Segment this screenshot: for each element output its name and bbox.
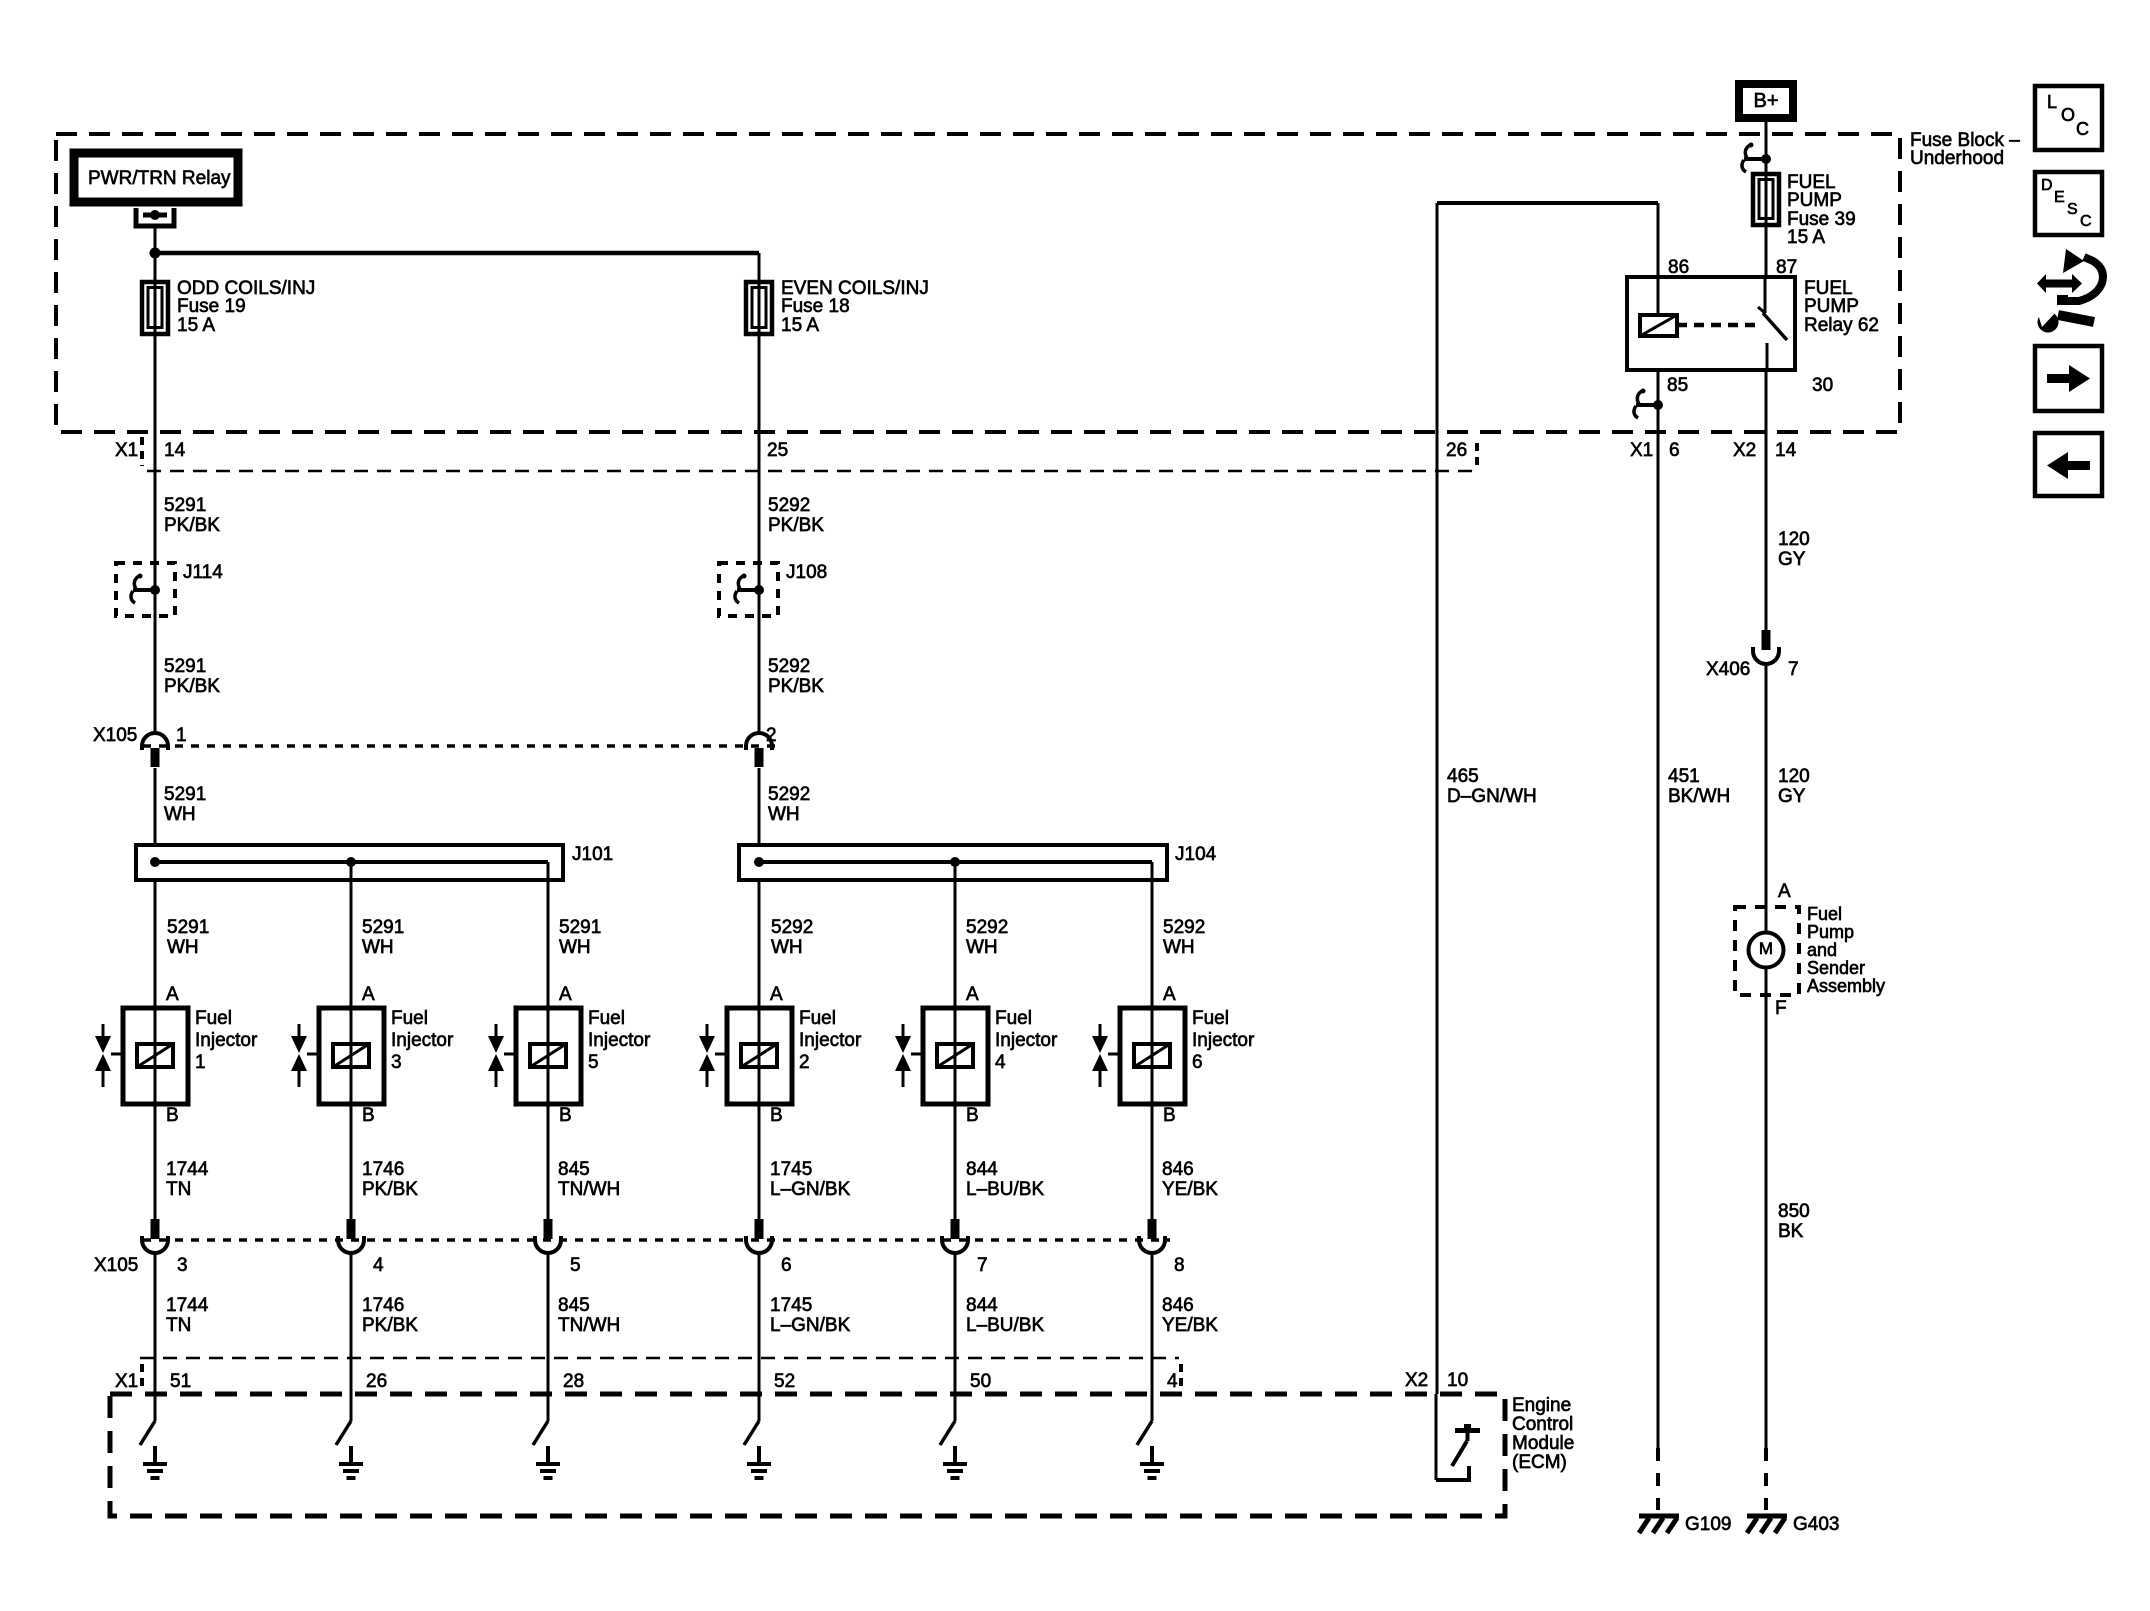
- svg-text:BK/WH: BK/WH: [1668, 786, 1730, 807]
- svg-text:Relay 62: Relay 62: [1804, 315, 1879, 336]
- svg-text:Fuel: Fuel: [1807, 904, 1842, 924]
- svg-text:1: 1: [176, 725, 187, 746]
- svg-text:Module: Module: [1512, 1433, 1574, 1454]
- svg-text:26: 26: [1446, 440, 1467, 461]
- svg-text:4: 4: [1167, 1371, 1178, 1392]
- svg-text:1744: 1744: [166, 1159, 209, 1180]
- svg-text:L–BU/BK: L–BU/BK: [966, 1179, 1044, 1200]
- svg-text:D–GN/WH: D–GN/WH: [1447, 786, 1537, 807]
- svg-text:M: M: [1759, 939, 1773, 958]
- svg-text:120: 120: [1778, 529, 1810, 550]
- svg-text:X2: X2: [1405, 1370, 1428, 1391]
- svg-text:Sender: Sender: [1807, 958, 1865, 978]
- svg-text:X1: X1: [115, 1371, 138, 1392]
- svg-text:L: L: [2047, 92, 2057, 112]
- svg-text:Injector: Injector: [195, 1030, 258, 1051]
- svg-text:850: 850: [1778, 1201, 1810, 1222]
- svg-text:J104: J104: [1175, 844, 1217, 865]
- svg-text:50: 50: [970, 1371, 991, 1392]
- svg-text:PK/BK: PK/BK: [164, 515, 220, 536]
- svg-text:E: E: [2054, 189, 2065, 206]
- svg-text:WH: WH: [1163, 937, 1195, 958]
- svg-text:845: 845: [558, 1159, 590, 1180]
- svg-text:Pump: Pump: [1807, 922, 1854, 942]
- svg-text:A: A: [1163, 984, 1176, 1005]
- svg-text:4: 4: [373, 1255, 384, 1276]
- svg-text:WH: WH: [771, 937, 803, 958]
- svg-text:A: A: [966, 984, 979, 1005]
- svg-text:TN: TN: [166, 1179, 191, 1200]
- svg-text:GY: GY: [1778, 786, 1806, 807]
- svg-text:Injector: Injector: [588, 1030, 651, 1051]
- svg-text:PK/BK: PK/BK: [362, 1315, 418, 1336]
- svg-text:51: 51: [170, 1371, 191, 1392]
- svg-text:L–GN/BK: L–GN/BK: [770, 1315, 851, 1336]
- svg-text:D: D: [2041, 177, 2053, 194]
- svg-text:Injector: Injector: [799, 1030, 862, 1051]
- svg-text:845: 845: [558, 1295, 590, 1316]
- svg-text:6: 6: [1669, 440, 1680, 461]
- svg-text:PWR/TRN Relay: PWR/TRN Relay: [88, 168, 231, 189]
- svg-text:Fuse 19: Fuse 19: [177, 296, 246, 317]
- svg-text:846: 846: [1162, 1295, 1194, 1316]
- svg-text:28: 28: [563, 1371, 584, 1392]
- svg-text:BK: BK: [1778, 1221, 1804, 1242]
- svg-text:G403: G403: [1793, 1514, 1839, 1535]
- svg-text:3: 3: [177, 1255, 188, 1276]
- svg-text:X1: X1: [1630, 440, 1653, 461]
- svg-text:451: 451: [1668, 766, 1700, 787]
- svg-text:and: and: [1807, 940, 1837, 960]
- svg-text:A: A: [362, 984, 375, 1005]
- svg-text:B: B: [1163, 1105, 1176, 1126]
- svg-text:PK/BK: PK/BK: [164, 676, 220, 697]
- svg-text:14: 14: [1775, 440, 1797, 461]
- svg-text:X105: X105: [93, 725, 137, 746]
- svg-text:A: A: [1778, 881, 1791, 902]
- svg-text:120: 120: [1778, 766, 1810, 787]
- svg-text:5291: 5291: [164, 495, 206, 516]
- svg-text:B: B: [559, 1105, 572, 1126]
- svg-text:Fuel: Fuel: [799, 1008, 836, 1029]
- svg-text:85: 85: [1667, 375, 1688, 396]
- svg-text:5292: 5292: [966, 917, 1008, 938]
- svg-text:5292: 5292: [768, 656, 810, 677]
- svg-text:X1: X1: [115, 440, 138, 461]
- svg-text:4: 4: [995, 1052, 1006, 1073]
- svg-text:5292: 5292: [768, 784, 810, 805]
- svg-text:5291: 5291: [167, 917, 209, 938]
- svg-text:1746: 1746: [362, 1159, 404, 1180]
- svg-text:A: A: [166, 984, 179, 1005]
- svg-text:15 A: 15 A: [781, 315, 819, 336]
- svg-text:5291: 5291: [164, 784, 206, 805]
- svg-text:1: 1: [195, 1052, 206, 1073]
- svg-text:5292: 5292: [768, 495, 810, 516]
- svg-text:WH: WH: [362, 937, 394, 958]
- svg-text:86: 86: [1668, 257, 1689, 278]
- svg-text:YE/BK: YE/BK: [1162, 1179, 1218, 1200]
- svg-text:Assembly: Assembly: [1807, 976, 1885, 996]
- svg-text:X406: X406: [1706, 659, 1750, 680]
- svg-text:GY: GY: [1778, 549, 1806, 570]
- svg-text:Control: Control: [1512, 1414, 1573, 1435]
- svg-text:PK/BK: PK/BK: [768, 676, 824, 697]
- svg-text:87: 87: [1776, 257, 1797, 278]
- svg-text:6: 6: [1192, 1052, 1203, 1073]
- svg-text:S: S: [2067, 201, 2078, 218]
- svg-text:8: 8: [1174, 1255, 1185, 1276]
- svg-text:5291: 5291: [559, 917, 601, 938]
- svg-text:26: 26: [366, 1371, 387, 1392]
- svg-text:A: A: [559, 984, 572, 1005]
- svg-text:5291: 5291: [164, 656, 206, 677]
- svg-text:J114: J114: [183, 562, 223, 583]
- svg-text:465: 465: [1447, 766, 1479, 787]
- svg-text:Fuel: Fuel: [1192, 1008, 1229, 1029]
- svg-text:Injector: Injector: [1192, 1030, 1255, 1051]
- svg-text:846: 846: [1162, 1159, 1194, 1180]
- svg-text:25: 25: [767, 440, 788, 461]
- svg-text:Underhood: Underhood: [1910, 148, 2004, 169]
- svg-text:5292: 5292: [771, 917, 813, 938]
- svg-text:J101: J101: [572, 844, 613, 865]
- svg-text:7: 7: [977, 1255, 988, 1276]
- svg-text:Fuse 18: Fuse 18: [781, 296, 850, 317]
- svg-text:14: 14: [164, 440, 186, 461]
- svg-text:15 A: 15 A: [177, 315, 215, 336]
- svg-text:5: 5: [588, 1052, 599, 1073]
- svg-text:844: 844: [966, 1295, 998, 1316]
- svg-text:L–BU/BK: L–BU/BK: [966, 1315, 1044, 1336]
- svg-text:2: 2: [799, 1052, 810, 1073]
- svg-text:A: A: [770, 984, 783, 1005]
- svg-text:Fuel: Fuel: [391, 1008, 428, 1029]
- svg-text:X105: X105: [94, 1255, 138, 1276]
- svg-text:30: 30: [1812, 375, 1833, 396]
- svg-text:TN/WH: TN/WH: [558, 1179, 620, 1200]
- svg-text:B: B: [362, 1105, 375, 1126]
- svg-text:5292: 5292: [1163, 917, 1205, 938]
- svg-text:PUMP: PUMP: [1804, 296, 1859, 317]
- svg-text:15 A: 15 A: [1787, 227, 1825, 248]
- svg-text:F: F: [1775, 998, 1787, 1019]
- svg-text:C: C: [2080, 213, 2092, 230]
- svg-text:844: 844: [966, 1159, 998, 1180]
- svg-text:YE/BK: YE/BK: [1162, 1315, 1218, 1336]
- svg-text:WH: WH: [164, 804, 196, 825]
- svg-text:1745: 1745: [770, 1295, 812, 1316]
- svg-text:Fuel: Fuel: [588, 1008, 625, 1029]
- svg-text:(ECM): (ECM): [1512, 1452, 1567, 1473]
- svg-text:1744: 1744: [166, 1295, 209, 1316]
- svg-text:B+: B+: [1753, 90, 1778, 112]
- svg-text:Injector: Injector: [995, 1030, 1058, 1051]
- svg-text:Injector: Injector: [391, 1030, 454, 1051]
- svg-text:WH: WH: [966, 937, 998, 958]
- svg-text:5291: 5291: [362, 917, 404, 938]
- svg-text:B: B: [166, 1105, 179, 1126]
- svg-text:TN/WH: TN/WH: [558, 1315, 620, 1336]
- svg-text:6: 6: [781, 1255, 792, 1276]
- svg-text:Fuel: Fuel: [195, 1008, 232, 1029]
- svg-text:C: C: [2076, 119, 2089, 139]
- svg-text:WH: WH: [768, 804, 800, 825]
- svg-text:Fuel: Fuel: [995, 1008, 1032, 1029]
- svg-text:3: 3: [391, 1052, 402, 1073]
- svg-text:52: 52: [774, 1371, 795, 1392]
- svg-text:7: 7: [1788, 659, 1799, 680]
- svg-text:10: 10: [1447, 1370, 1468, 1391]
- svg-text:PK/BK: PK/BK: [362, 1179, 418, 1200]
- svg-text:J108: J108: [786, 562, 827, 583]
- svg-text:1745: 1745: [770, 1159, 812, 1180]
- svg-text:G109: G109: [1685, 1514, 1731, 1535]
- svg-text:5: 5: [570, 1255, 581, 1276]
- svg-text:Engine: Engine: [1512, 1395, 1571, 1416]
- svg-text:1746: 1746: [362, 1295, 404, 1316]
- svg-text:L–GN/BK: L–GN/BK: [770, 1179, 851, 1200]
- svg-text:B: B: [770, 1105, 783, 1126]
- svg-text:X2: X2: [1733, 440, 1756, 461]
- svg-text:PK/BK: PK/BK: [768, 515, 824, 536]
- svg-text:TN: TN: [166, 1315, 191, 1336]
- svg-text:WH: WH: [559, 937, 591, 958]
- svg-text:B: B: [966, 1105, 979, 1126]
- svg-text:PUMP: PUMP: [1787, 190, 1842, 211]
- svg-text:WH: WH: [167, 937, 199, 958]
- svg-text:O: O: [2061, 105, 2075, 125]
